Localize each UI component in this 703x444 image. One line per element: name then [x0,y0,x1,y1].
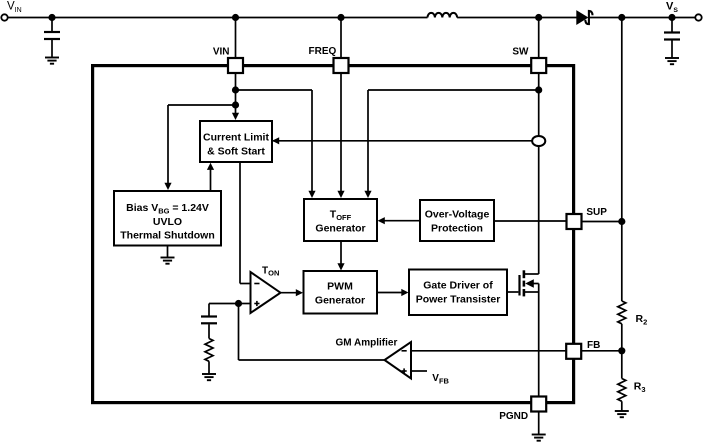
svg-text:Protection: Protection [431,223,483,235]
arrowhead into PWM top [337,263,344,270]
svg-text:Generator: Generator [315,295,365,307]
svg-text:PGND: PGND [499,411,528,422]
wire top rail left segment [8,17,428,19]
wire Current Limit to TON minus [239,162,241,284]
wire sense to current limit [272,140,533,142]
arrowhead into Current Limit bottom [207,163,214,170]
ground PGND [532,435,546,441]
resistor compensation [205,339,213,362]
pin SUP [567,214,582,229]
wire FREQ pin internal lead [340,73,342,193]
junction dot VIN internal b [232,101,239,108]
transistor Q1 power MOSFET [507,270,539,296]
svg-text:Thermal Shutdown: Thermal Shutdown [120,230,215,242]
wire down to Bias [167,105,169,185]
wire PWM to gate driver [377,292,403,294]
wire comp cap lead [208,304,210,316]
svg-text:SW: SW [512,46,529,57]
junction dot VIN internal a [232,86,239,93]
svg-text:PWM: PWM [327,281,353,293]
pin VIN [228,58,243,73]
wire output cap bottom lead [671,41,673,58]
wire VIN pin internal lead [235,73,237,115]
arrowhead into Current Limit right [272,137,279,144]
block TOFF Generator [304,199,377,241]
op-amp TON comparator [251,272,281,313]
wire input cap bottom lead [51,40,53,57]
pin FB [566,344,581,359]
pin SW [531,58,546,73]
junction dot FREQ column [337,14,344,21]
wire VFB stub [411,370,427,372]
current sense oval [532,136,545,146]
svg-text:FREQ: FREQ [309,46,337,57]
wire TON output [281,292,298,294]
ground input cap [45,58,59,64]
wire OVP to TOFF [383,220,420,222]
block PWM Generator [304,271,378,314]
wire top rail mid segment [457,17,576,19]
arrowhead into TOFF right [364,191,371,198]
svg-text:FB: FB [587,340,600,351]
svg-text:UVLO: UVLO [153,216,182,228]
wire plus node down to GM output [238,304,240,361]
wire TON minus input [240,283,251,285]
wire FREQ pin top lead [340,18,342,59]
junction dot TON plus node [235,300,242,307]
wire TON plus input [239,303,251,305]
svg-text:Power Transister: Power Transister [416,294,501,306]
wire SW column to MOSFET drain [538,146,540,274]
arrowhead into Bias top [164,183,171,190]
wire MOSFET source to PGND [538,292,540,397]
wire VIN-a to TOFF column [236,89,313,91]
arrowhead FREQ into TOFF [337,191,344,198]
block Current Limit & Soft Start [200,121,272,162]
svg-text:SUP: SUP [586,207,607,218]
junction dot SW column [535,14,542,21]
junction dot SUP node [618,218,625,225]
diode D1 (schottky) [576,10,592,25]
svg-text:& Soft Start: & Soft Start [207,146,265,158]
wire Bias to ground [167,246,169,258]
wire PGND to ground [538,412,540,435]
wire between R2 and R3 [621,324,623,379]
resistor R3 [618,379,626,402]
block Bias / UVLO / Thermal Shutdown [114,191,221,246]
wire SW pin top lead [538,18,540,59]
wire comp res to ground [208,361,210,373]
block Gate Driver of Power Transister [409,270,507,316]
svg-text:Over-Voltage: Over-Voltage [425,209,490,221]
junction dot diode cathode / divider [618,14,625,21]
wire top rail right segment [589,17,696,19]
wire down to TOFF [311,90,313,193]
arrowhead into Current Limit top [232,113,239,120]
capacitor compensation [201,317,217,324]
wire comp cap to res [208,324,210,338]
pin PGND [531,397,546,412]
wire VIN-b to bias column [168,104,236,106]
ground Bias block [161,258,175,264]
wire output cap top lead [671,18,673,32]
junction dot output cap node [668,14,675,21]
svg-text:Generator: Generator [315,223,365,235]
svg-text:GM Amplifier: GM Amplifier [336,338,398,349]
wire VIN pin top lead [235,18,237,59]
pin FREQ [334,58,349,73]
wire SW to TOFF column [368,89,539,91]
junction dot FB node [618,347,625,354]
resistor R2 [618,301,626,324]
IC boundary box [93,66,574,403]
wire Bias to Current Limit [210,168,212,191]
wire to compensation [209,303,239,305]
junction dot SW internal [535,86,542,93]
wire SUP to divider [582,221,622,223]
wire FB to GM minus [411,350,566,352]
arrowhead into TOFF left [308,191,315,198]
arrowhead into Gate Driver [401,289,408,296]
wire input cap top lead [51,18,53,32]
svg-text:VIN: VIN [213,46,230,57]
capacitor C-in [44,32,60,39]
capacitor C-out [664,33,680,40]
terminal VS output [695,14,701,20]
block Over-Voltage Protection [420,200,494,241]
wire R3 to ground [621,401,623,410]
wire down to TOFF right [367,90,369,193]
wire divider top segment [621,18,623,302]
svg-text:Gate Driver of: Gate Driver of [423,280,493,292]
terminal VIN input [1,14,7,20]
svg-text:Current Limit: Current Limit [203,132,269,144]
junction dot VIN column [232,14,239,21]
ground divider [615,411,629,417]
wire SW internal lead upper [538,73,540,136]
arrowhead into PWM left [296,289,303,296]
wire OVP to SUP pin [494,220,567,222]
arrowhead into TOFF right [378,217,385,224]
junction dot input cap node [48,14,55,21]
wire FB to divider [582,350,622,352]
wire GM output wire [239,359,385,361]
inductor L1 [428,13,458,18]
ground output cap [665,58,679,64]
wire TOFF to PWM [340,241,342,265]
ground compensation [202,374,216,380]
op-amp GM amplifier [385,342,412,379]
